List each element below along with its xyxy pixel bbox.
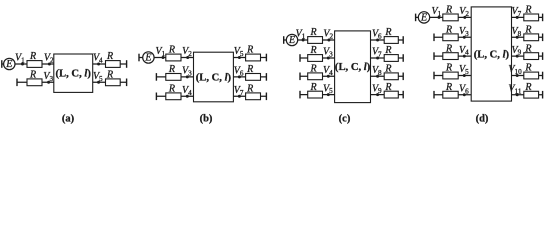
node V7 [516,16,519,19]
terminal [542,91,544,99]
svg-text:V5: V5 [234,46,244,58]
svg-text:V4: V4 [93,53,103,65]
wire [284,39,335,41]
resistor R [384,73,398,80]
svg-text:(a): (a) [62,114,75,125]
wire [371,57,404,59]
svg-text:R: R [524,43,531,54]
svg-text:R: R [246,45,253,56]
resistor R [524,34,539,41]
resistor R [443,72,458,79]
svg-text:V3: V3 [182,66,192,78]
terminal [542,72,544,80]
svg-text:R: R [524,25,531,36]
node V1 [162,56,165,59]
svg-text:R: R [384,27,391,38]
svg-text:V8: V8 [512,26,522,38]
node V2 [463,16,466,19]
svg-text:R: R [310,64,317,75]
node V3 [47,81,50,84]
svg-text:(L, C, l): (L, C, l) [56,69,92,80]
svg-text:V2: V2 [44,53,54,65]
resistor R [106,79,121,86]
node V9 [376,93,379,96]
two-port network (L, C, l) (b) [194,52,234,102]
terminal [433,91,435,99]
svg-text:R: R [310,27,317,38]
wire [512,55,543,57]
node V1 [302,39,305,42]
node V2 [48,63,51,66]
source E (b) [143,52,154,64]
svg-text:V6: V6 [459,83,469,95]
terminal [16,79,18,87]
terminal [126,79,128,87]
two-port network (L, C, l) (a) [54,54,93,92]
svg-text:V1: V1 [15,53,25,65]
svg-text:R: R [29,51,36,62]
svg-text:R: R [168,84,175,95]
svg-text:V7: V7 [372,47,382,59]
terminal [138,54,140,62]
node V5 [327,93,330,96]
svg-text:V7: V7 [512,6,522,18]
svg-text:V5: V5 [93,71,103,83]
node V4 [97,63,100,66]
node V3 [327,57,330,60]
node V6 [238,75,241,78]
svg-text:R: R [106,51,113,62]
wire [300,75,335,77]
svg-text:R: R [524,63,531,74]
svg-text:V9: V9 [372,83,382,95]
svg-text:V1: V1 [296,29,306,41]
wire [233,57,266,59]
resistor R [166,54,181,61]
terminal [265,73,267,81]
svg-text:R: R [310,82,317,93]
svg-text:R: R [168,64,175,75]
resistor R [524,91,539,98]
svg-text:(c): (c) [339,114,351,125]
resistor R [524,53,539,60]
resistor R [246,74,261,81]
svg-text:V6: V6 [372,29,382,41]
node V4 [186,95,189,98]
node V10 [516,74,519,77]
terminal [1,60,3,68]
svg-text:E: E [420,13,427,24]
resistor R [308,73,323,80]
terminal [542,52,544,60]
svg-text:V10: V10 [508,64,522,76]
terminal [283,36,285,44]
wire [512,36,543,38]
terminal [155,73,157,81]
terminal [299,73,301,81]
resistor R [524,72,539,79]
wire [512,16,543,18]
svg-text:V4: V4 [182,85,192,97]
resistor R [27,79,42,86]
resistor R [443,53,458,60]
terminal [402,54,404,62]
terminal [433,34,435,42]
svg-text:R: R [246,64,253,75]
node V3 [463,36,466,39]
node V1 [438,16,441,19]
svg-text:V5: V5 [459,64,469,76]
svg-text:R: R [384,64,391,75]
wire [434,75,471,77]
wire [434,36,471,38]
terminal [299,91,301,99]
node V6 [463,93,466,96]
svg-text:V2: V2 [459,6,469,18]
resistor R [443,91,458,98]
resistor R [384,91,398,98]
two-port network (L, C, l) (d) [471,7,511,101]
wire [93,63,127,65]
terminal [433,72,435,80]
wire [156,76,193,78]
wire [156,95,193,97]
resistor R [384,55,398,62]
terminal [126,60,128,68]
terminal [415,14,417,22]
svg-text:R: R [445,82,452,93]
svg-text:R: R [445,63,452,74]
terminal [299,54,301,62]
node V5 [463,74,466,77]
svg-text:(L, C, l): (L, C, l) [335,62,371,73]
node V8 [516,36,519,39]
wire [371,94,404,96]
svg-text:V7: V7 [234,85,244,97]
terminal [542,34,544,42]
node V4 [327,75,330,78]
node V11 [516,93,519,96]
svg-text:R: R [310,45,317,56]
node V8 [376,75,379,78]
node V3 [186,75,189,78]
svg-text:R: R [524,82,531,93]
node V9 [516,55,519,58]
resistor R [308,55,323,62]
svg-text:V4: V4 [459,45,469,57]
resistor R [524,14,539,21]
svg-text:V4: V4 [323,65,333,77]
source E (a) [4,58,15,70]
svg-text:R: R [445,25,452,36]
svg-text:E: E [5,59,12,70]
svg-text:V11: V11 [508,83,521,95]
svg-text:V1: V1 [156,46,166,58]
terminal [155,93,157,101]
node V4 [463,55,466,58]
source E (d) [418,12,429,24]
wire [371,39,404,41]
wire [512,94,543,96]
resistor R [443,14,458,21]
node V7 [238,95,241,98]
svg-text:(d): (d) [476,114,489,125]
svg-text:R: R [29,70,36,81]
svg-text:E: E [288,35,295,46]
svg-text:E: E [144,53,151,64]
svg-text:R: R [384,45,391,56]
wire [434,55,471,57]
resistor R [246,54,261,61]
wire [139,57,194,59]
resistor R [308,91,323,98]
wire [233,95,266,97]
terminal [402,91,404,99]
terminal [402,36,404,44]
svg-text:R: R [168,45,175,56]
resistor R [27,61,42,68]
svg-text:V3: V3 [323,47,333,59]
wire [434,94,471,96]
svg-text:V3: V3 [459,26,469,38]
resistor R [384,37,398,44]
svg-text:R: R [384,82,391,93]
node V5 [97,81,100,84]
node V2 [186,56,189,59]
node V7 [376,57,379,60]
resistor R [443,34,458,41]
svg-text:V2: V2 [182,46,192,58]
node V6 [376,39,379,42]
node V1 [21,63,24,66]
terminal [433,52,435,60]
source E (c) [286,34,297,46]
resistor R [308,37,323,44]
terminal [265,54,267,62]
svg-text:(L, C, l): (L, C, l) [196,72,232,83]
wire [512,75,543,77]
svg-text:(L, C, l): (L, C, l) [474,49,510,60]
svg-text:V1: V1 [432,6,442,18]
svg-text:R: R [445,5,452,16]
svg-text:V2: V2 [323,29,333,41]
resistor R [166,93,181,100]
resistor R [246,93,261,100]
two-port network (L, C, l) (c) [335,31,371,103]
wire [416,16,472,18]
resistor R [106,61,121,68]
svg-text:R: R [524,5,531,16]
svg-text:R: R [445,43,452,54]
terminal [265,93,267,101]
resistor R [166,74,181,81]
terminal [542,14,544,22]
wire [233,76,266,78]
svg-text:V3: V3 [43,71,53,83]
svg-text:R: R [246,84,253,95]
svg-text:(b): (b) [200,114,213,125]
wire [93,81,127,83]
wire [17,81,54,83]
svg-text:V8: V8 [372,65,382,77]
wire [2,63,54,65]
svg-text:V9: V9 [512,45,522,57]
wire [371,75,404,77]
svg-text:R: R [106,70,113,81]
wire [300,57,335,59]
wire [300,94,335,96]
svg-text:V5: V5 [323,83,333,95]
node V5 [238,56,241,59]
svg-text:V6: V6 [234,66,244,78]
terminal [402,73,404,81]
node V2 [327,39,330,42]
